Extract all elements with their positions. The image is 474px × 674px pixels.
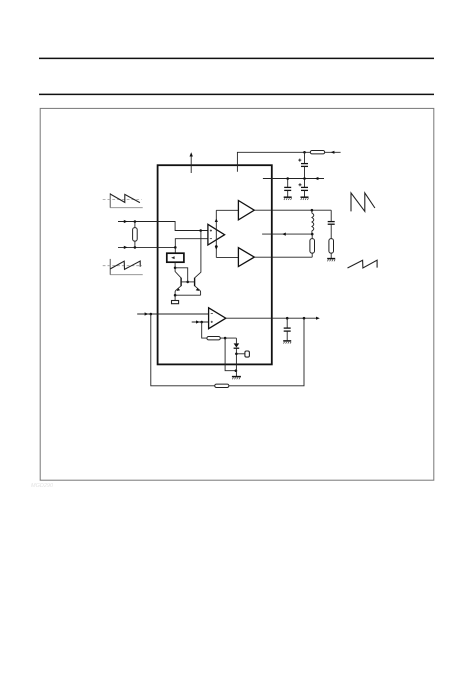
capacitor C2	[284, 179, 291, 197]
wire pin drop	[225, 338, 236, 371]
wire snubber branch	[330, 210, 332, 221]
waveform sawtooth falling (upper left)	[103, 193, 143, 208]
wire upper rail	[216, 209, 238, 211]
node inductor top	[311, 209, 314, 212]
capacitor C1 (polarized, top right)	[298, 152, 308, 178]
wire lower rail	[216, 256, 238, 258]
arrow on oscillator input	[145, 312, 149, 315]
resistor R7 (snubber)	[329, 239, 334, 258]
arrow on input P	[124, 220, 128, 223]
node C3 tap	[303, 177, 306, 180]
node N junction	[174, 246, 177, 249]
node top-right	[303, 151, 306, 154]
wire decoupling rail	[263, 178, 324, 180]
wire feedback loop	[151, 314, 304, 386]
node below IC	[235, 369, 238, 372]
wire A2 output	[254, 209, 331, 211]
top rule 2	[39, 93, 434, 95]
arrow up (A1 top)	[215, 218, 218, 222]
wire tail current (vertical through A1)	[215, 210, 217, 257]
wire base feed	[175, 268, 188, 282]
waveform sawtooth rising (lower right)	[348, 260, 378, 268]
waveform sawtooth rising (lower left)	[103, 259, 143, 275]
node R1 bottom	[134, 246, 137, 249]
wire N junction to block	[174, 247, 176, 253]
op-amp A1 (transconductance)	[208, 224, 225, 245]
wire input P (upper left)	[118, 221, 158, 223]
node A1 bottom	[215, 245, 218, 248]
node + branch	[200, 321, 203, 324]
transistor Q2 (mirror output, right)	[195, 231, 201, 296]
arrow down (A1 bottom)	[215, 246, 218, 250]
arrow on + stub	[196, 320, 200, 323]
wire base link	[181, 281, 195, 283]
resistor R1 (vertical, between inputs)	[133, 222, 138, 248]
node mirror branch	[199, 229, 202, 232]
node emitters	[174, 294, 177, 297]
op-amp A4 (oscillator comparator)	[209, 308, 226, 329]
crystal X1 stub	[236, 351, 249, 357]
arrow on rail (left-pointing)	[315, 177, 319, 180]
ground (under C4)	[283, 341, 291, 344]
node R1 top	[134, 220, 137, 223]
wire A3 output	[254, 256, 312, 258]
node block output	[174, 267, 177, 270]
IC U1 outline	[158, 165, 272, 364]
capacitor C3 (polarized)	[299, 179, 309, 197]
resistor R5 (top right horizontal)	[310, 151, 324, 154]
resistor R4 (feedback)	[215, 384, 229, 387]
node bases	[186, 281, 189, 284]
node C4 tap	[286, 317, 289, 320]
resistor R3 (threshold)	[207, 337, 220, 340]
node feedback tap	[303, 317, 306, 320]
terminal pad (emitter return)	[172, 295, 179, 304]
wire + branch down	[202, 322, 207, 338]
wire oscillator input	[137, 313, 208, 315]
wire feedback pin (middle right)	[262, 233, 312, 235]
capacitor C5 (snubber)	[328, 222, 335, 239]
figure frame	[40, 108, 434, 480]
buffer A3 (lower)	[238, 248, 254, 267]
arrow into R5 (left-pointing)	[331, 151, 335, 154]
buffer A2 (upper)	[238, 201, 254, 220]
inductor L1	[312, 210, 314, 234]
supply pin arrow (top of IC)	[190, 152, 193, 173]
arrow output (right-pointing)	[316, 317, 320, 320]
wire input N (lower left)	[118, 246, 158, 248]
node R3 output	[224, 337, 227, 340]
ground (snubber)	[327, 259, 335, 262]
svg-text:MGD290: MGD290	[31, 483, 54, 489]
arrow on feedback pin (left-pointing)	[282, 233, 286, 236]
node inductor bottom	[311, 233, 314, 236]
wire P to op-amp +	[158, 222, 208, 231]
arrow on input N	[124, 246, 128, 249]
top rule 1	[39, 57, 434, 59]
wire oscillator + input stub	[192, 321, 209, 323]
waveform flyback sawtooth (upper right)	[351, 193, 375, 212]
capacitor C4	[284, 318, 291, 340]
node C2 tap	[286, 177, 289, 180]
ground (under C3)	[301, 197, 309, 200]
ground (below IC)	[232, 377, 241, 380]
resistor R6 (vertical, damping)	[310, 234, 315, 257]
wire N to op-amp -	[158, 239, 208, 248]
node diode cathode	[235, 353, 238, 356]
transistor Q1 (diode connected, left)	[175, 268, 181, 295]
wire emitters	[175, 294, 201, 296]
wire block output	[174, 262, 176, 268]
diode D1	[234, 338, 240, 376]
node feedback join	[150, 313, 153, 316]
wire Vp top rail	[237, 152, 340, 172]
wire R3 to diode	[220, 337, 236, 339]
ground (under C2)	[284, 197, 292, 200]
block B1 (level shifter box)	[167, 253, 184, 262]
wire A4 output	[226, 317, 317, 319]
